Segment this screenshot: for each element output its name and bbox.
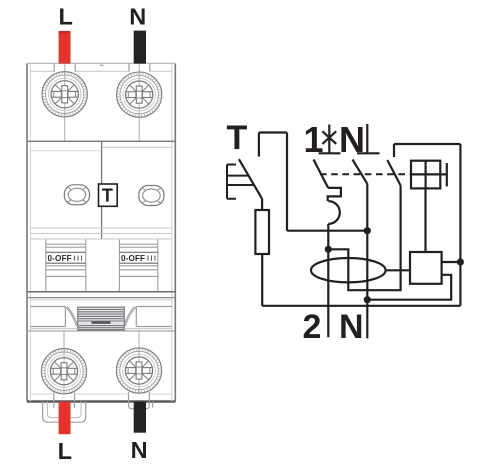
test button actuator bracket [227, 165, 254, 199]
svg-text:N: N [129, 3, 146, 29]
terminal screw bottom-right [116, 348, 161, 393]
top centre tick [100, 64, 104, 66]
pole centre line left through screw [64, 63, 66, 141]
wire: resistor down [261, 254, 263, 306]
bottom boss left [54, 393, 75, 402]
wire: toroid secondary to relay [386, 269, 410, 271]
wire: trip coil to relay [424, 188, 426, 252]
svg-text:N: N [131, 437, 148, 463]
boss tab below N wire [129, 402, 150, 409]
toggle rocker (hatched grip) [78, 307, 125, 330]
body top second line [30, 70, 172, 72]
terminal N supply marker [357, 124, 380, 153]
wire: top link to right riser [394, 143, 460, 145]
terminal screw bottom-left [41, 349, 86, 394]
terminal boss top-right [129, 63, 150, 71]
terminal 1 supply marker (star) [322, 125, 336, 154]
wire: top of test loop [259, 131, 287, 133]
svg-text:N: N [339, 308, 364, 346]
terminal screw top-left [42, 72, 87, 117]
wire: trip contact fixed stub [393, 144, 395, 157]
wire: test loop down to N tap [286, 133, 288, 231]
toggle recess right step [136, 307, 172, 327]
pole 1 contact blade [314, 160, 329, 188]
mechanical linkage (dashed) [320, 173, 411, 175]
terminal boss top-left [54, 63, 75, 71]
toggle recess left step [30, 307, 65, 327]
wire L bottom (red) [59, 402, 71, 435]
indicator panel left frame [46, 239, 86, 291]
trip coil armature bar [446, 163, 448, 186]
wire: test fixed contact up [258, 133, 260, 157]
indicator panel right frame [119, 239, 157, 291]
body inner edge lines [30, 63, 172, 401]
pole N contact blade [353, 160, 368, 184]
wire N bottom (black) [134, 402, 146, 433]
trip contact blade [387, 160, 400, 186]
junction dot pole1 / toroid primary tap [325, 246, 332, 253]
svg-text:0-OFF: 0-OFF [48, 254, 72, 263]
test button blade [239, 159, 262, 199]
wire: test tap [287, 230, 367, 232]
pole 1 conductor down to terminal 2 [327, 224, 329, 337]
pole N conductor down to bottom terminal N [366, 184, 368, 339]
lines under toggle [30, 328, 172, 330]
wire: bottom test return [262, 305, 460, 307]
junction dot relay/riser [457, 258, 464, 265]
mid section row lines [30, 228, 172, 239]
trip coil (square with cross) [411, 161, 440, 189]
wire: blade to resistor [261, 199, 263, 210]
wire: relay return loop to N [367, 275, 451, 300]
relay module (box) [410, 252, 442, 284]
svg-text:0-OFF: 0-OFF [121, 254, 145, 263]
svg-text:T: T [227, 119, 248, 157]
svg-text:L: L [58, 438, 72, 464]
clip stub right of N wire [152, 402, 154, 408]
toroid current transformer [311, 258, 386, 282]
toggle right transition curves [124, 307, 136, 327]
pole centre lines to bottom screws [64, 331, 139, 394]
junction dot relay return on N [364, 296, 371, 303]
test button T on device [99, 184, 118, 206]
svg-text:L: L [59, 4, 73, 30]
rivet window left [64, 185, 89, 205]
junction dot test tap on N [364, 227, 371, 234]
wire L top (red) [59, 31, 71, 64]
centre pole divider [101, 141, 103, 239]
bottom boss right [129, 392, 150, 402]
wire: trip contact loop through toroid [328, 186, 400, 291]
terminal screw top-right [117, 72, 162, 117]
breaker body outline [27, 63, 175, 401]
thermal-magnetic trip element pole 1 [328, 188, 341, 224]
wire: relay to right riser [442, 261, 461, 263]
toggle left transition curves [65, 307, 77, 327]
svg-text:2: 2 [303, 308, 322, 346]
pole centre line right through screw [138, 63, 140, 141]
rivet window right [139, 186, 164, 206]
resistor R (test resistor) [255, 210, 269, 254]
svg-text:T: T [102, 186, 113, 206]
wire: right side riser [459, 144, 461, 306]
wire N top (black) [134, 31, 146, 64]
boss tab below L wire [54, 402, 75, 408]
section divider under terminals [27, 140, 175, 142]
DIN clip tab bottom-left [43, 402, 86, 423]
toggle plate band [27, 291, 175, 293]
